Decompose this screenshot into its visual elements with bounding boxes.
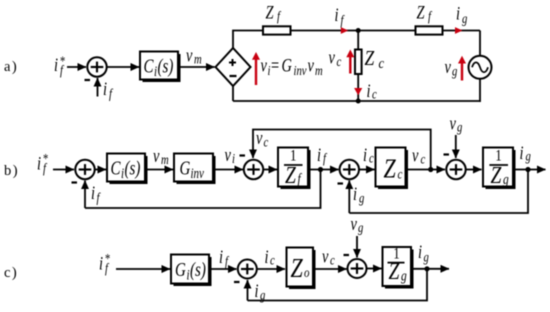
svg-text:i: i bbox=[363, 144, 367, 165]
node junction dot i_f takeoff bbox=[318, 167, 323, 172]
svg-text:Z: Z bbox=[365, 48, 375, 71]
svg-text:g: g bbox=[452, 63, 457, 79]
svg-text:i: i bbox=[353, 183, 357, 204]
label Z_f bbox=[266, 2, 282, 24]
wire capacitor branch bottom bbox=[357, 75, 359, 101]
svg-text:v: v bbox=[351, 213, 358, 234]
svg-text:g: g bbox=[359, 190, 364, 206]
node i_f label bbox=[317, 144, 327, 166]
svg-text:Z: Z bbox=[384, 154, 397, 184]
svg-text:c: c bbox=[330, 252, 335, 268]
svg-text:C: C bbox=[144, 56, 154, 77]
svg-text:Z: Z bbox=[417, 2, 426, 23]
svg-text:a): a) bbox=[4, 59, 18, 75]
wire i_f feedback vertical arrow into S1b bbox=[84, 181, 86, 209]
node v_g input label bbox=[351, 213, 364, 235]
svg-text:f: f bbox=[225, 253, 229, 269]
svg-text:v: v bbox=[153, 145, 160, 166]
summing junction S1b bbox=[72, 160, 95, 183]
resistor Z_f (inverter side) bbox=[263, 26, 291, 34]
summing junction S2b bbox=[240, 156, 264, 180]
svg-text:Z: Z bbox=[491, 161, 502, 189]
node junction dot (bottom) bbox=[356, 99, 361, 104]
node junction dot (top) bbox=[356, 28, 361, 33]
resistor Z_f (grid side) bbox=[416, 26, 443, 34]
svg-text:G: G bbox=[175, 259, 186, 280]
wire v_c feedback into S2b bbox=[253, 130, 431, 170]
wire controller to dependent source bbox=[181, 66, 215, 68]
svg-text:f: f bbox=[428, 8, 432, 24]
wire capacitor branch top bbox=[357, 31, 359, 49]
svg-text:G: G bbox=[180, 158, 191, 179]
node i_f* reference input label bbox=[54, 53, 65, 78]
node i_g output label bbox=[520, 142, 531, 164]
svg-text:m: m bbox=[194, 51, 202, 67]
svg-text:i: i bbox=[54, 54, 58, 75]
svg-text:g: g bbox=[503, 171, 509, 188]
svg-text:v: v bbox=[329, 47, 336, 68]
svg-text:f: f bbox=[277, 8, 281, 24]
svg-text:g: g bbox=[358, 220, 363, 236]
svg-text:(s): (s) bbox=[125, 158, 141, 179]
svg-text:c: c bbox=[421, 151, 426, 167]
wire S2b to 1/Zf block bbox=[264, 169, 278, 171]
svg-text:c: c bbox=[398, 166, 403, 181]
svg-text:c: c bbox=[264, 134, 269, 150]
wire output bbox=[411, 268, 449, 270]
svg-text:v: v bbox=[256, 127, 263, 148]
wire bottom rail bbox=[233, 100, 480, 102]
node i_c label bbox=[363, 144, 374, 166]
svg-text:i: i bbox=[456, 3, 460, 24]
wire i_f feedback arrow into S1a bbox=[97, 78, 99, 97]
wire i_f feedback horizontal bbox=[85, 170, 321, 209]
voltage arrow v_i (red) bbox=[252, 52, 260, 85]
node junction dot v_c takeoff bbox=[428, 167, 433, 172]
wire v_g arrow into S4b bbox=[455, 135, 457, 158]
wire top rail right bbox=[443, 30, 481, 32]
svg-text:v: v bbox=[308, 55, 315, 76]
svg-text:inv: inv bbox=[294, 63, 308, 79]
svg-text:f: f bbox=[341, 12, 345, 28]
block 1/Z_g bbox=[483, 147, 516, 189]
node i_g feedback label bbox=[255, 280, 266, 303]
svg-text:i: i bbox=[219, 246, 223, 267]
wire G_i(s) to summing junction S1c bbox=[212, 268, 237, 270]
node v_c label bbox=[329, 47, 342, 70]
node i_f feedback label bbox=[103, 78, 113, 101]
node i_f feedback label bbox=[91, 182, 101, 205]
svg-text:Z: Z bbox=[266, 2, 275, 23]
svg-text:i: i bbox=[37, 153, 41, 174]
svg-text:i: i bbox=[99, 253, 103, 274]
block 1/Z_f bbox=[278, 147, 311, 189]
wire Z_o to summing junction S2c bbox=[313, 268, 347, 270]
svg-text:Z: Z bbox=[285, 161, 296, 189]
node v_m label bbox=[153, 145, 169, 167]
svg-text:i: i bbox=[103, 78, 107, 99]
ac source v_g bbox=[469, 56, 492, 79]
svg-text:=: = bbox=[271, 55, 279, 76]
node label v_i = G_inv v_m bbox=[261, 55, 323, 79]
node i_c label bbox=[265, 246, 276, 268]
wire i_g feedback horizontal bbox=[349, 170, 528, 214]
wire v_g arrow into S2c bbox=[356, 236, 358, 258]
summing junction S4b bbox=[444, 155, 466, 180]
svg-text:v: v bbox=[186, 45, 193, 66]
svg-text:inv: inv bbox=[191, 166, 205, 182]
node i_f* reference input label bbox=[37, 151, 48, 176]
svg-text:v: v bbox=[225, 144, 232, 165]
controller C_i(s) bbox=[140, 52, 181, 83]
svg-text:f: f bbox=[323, 150, 327, 166]
current arrow i_f (red) bbox=[341, 27, 349, 34]
wire right rail top bbox=[479, 31, 481, 57]
block 1/Z_g bbox=[383, 245, 414, 288]
controller C_i(s) bbox=[107, 154, 148, 185]
node v_i label bbox=[225, 144, 236, 166]
svg-text:c: c bbox=[337, 54, 342, 70]
svg-text:i: i bbox=[265, 246, 269, 267]
svg-text:g: g bbox=[401, 267, 407, 284]
wire S1a to controller bbox=[107, 66, 139, 68]
node i_c label bbox=[367, 80, 378, 102]
current arrow i_g (red) bbox=[455, 27, 463, 34]
svg-text:i: i bbox=[418, 241, 422, 262]
svg-text:i: i bbox=[367, 80, 371, 101]
svg-text:i: i bbox=[232, 151, 235, 167]
voltage arrow v_c (red, up) bbox=[346, 50, 354, 74]
svg-text:v: v bbox=[445, 56, 452, 77]
node junction dot i_g takeoff bbox=[424, 266, 429, 271]
svg-text:c: c bbox=[369, 150, 374, 166]
wire controller to inverter block bbox=[148, 169, 174, 171]
wire S3b to Z_c block bbox=[359, 169, 374, 171]
svg-text:g: g bbox=[462, 11, 467, 27]
wire S1b to controller bbox=[95, 169, 106, 171]
wire output bbox=[513, 169, 546, 171]
wire S4b to 1/Zg block bbox=[466, 169, 482, 171]
controller G_i(s) bbox=[171, 255, 212, 287]
summing junction S1c bbox=[234, 260, 257, 283]
svg-text:G: G bbox=[282, 55, 292, 76]
svg-text:v: v bbox=[261, 55, 268, 76]
svg-text:m: m bbox=[315, 63, 323, 79]
summing junction S2c bbox=[344, 255, 367, 278]
svg-text:v: v bbox=[412, 145, 419, 166]
wire diamond bottom to bottom rail bbox=[232, 86, 234, 101]
node junction dot i_g takeoff bbox=[525, 167, 530, 172]
node v_g label bbox=[445, 56, 458, 79]
svg-text:(s): (s) bbox=[190, 259, 206, 280]
wire input to summing junction bbox=[67, 66, 86, 68]
svg-text:c): c) bbox=[4, 265, 18, 281]
dependent source diamond v_i bbox=[216, 48, 251, 86]
svg-text:v: v bbox=[450, 113, 457, 134]
wire i_g feedback horizontal bbox=[248, 269, 428, 301]
svg-text:b): b) bbox=[4, 163, 19, 179]
wire top rail middle bbox=[291, 30, 416, 32]
svg-text:i: i bbox=[335, 4, 339, 25]
wire 1/Zf to summing junction S3b bbox=[308, 169, 339, 171]
svg-text:i: i bbox=[520, 142, 524, 163]
svg-text:v: v bbox=[322, 246, 329, 267]
summing junction S1a bbox=[85, 57, 107, 80]
svg-text:c: c bbox=[270, 252, 275, 268]
wire right rail bottom bbox=[479, 79, 481, 102]
wire G_inv to summing junction S2b bbox=[213, 169, 243, 171]
wire S2c to 1/Zg bbox=[367, 268, 382, 270]
node i_g feedback label bbox=[353, 183, 364, 206]
node i_g label bbox=[456, 3, 467, 27]
node v_c feedback label bbox=[256, 127, 269, 150]
node v_m label bbox=[186, 45, 202, 67]
svg-text:f: f bbox=[109, 86, 113, 102]
node v_c label bbox=[322, 246, 335, 268]
node i_f label (top rail) bbox=[335, 4, 345, 28]
wire input to G_i(s) bbox=[116, 268, 170, 270]
current arrow i_c (red, down) bbox=[354, 88, 362, 95]
svg-text:i: i bbox=[255, 280, 259, 301]
svg-text:g: g bbox=[457, 119, 462, 135]
svg-text:Z: Z bbox=[291, 254, 304, 284]
node v_c label bbox=[412, 145, 426, 167]
svg-text:o: o bbox=[304, 265, 309, 280]
label Z_f bbox=[417, 2, 433, 24]
svg-text:i: i bbox=[91, 182, 95, 203]
svg-text:Z: Z bbox=[389, 257, 400, 285]
wire S1c to Z_o bbox=[257, 268, 285, 270]
svg-text:g: g bbox=[526, 148, 531, 164]
label Z_c bbox=[365, 48, 385, 72]
wire Z_c to summing junction S4b bbox=[406, 169, 446, 171]
svg-text:m: m bbox=[161, 152, 169, 168]
node v_g input label bbox=[450, 113, 463, 135]
summing junction S3b bbox=[338, 160, 359, 184]
svg-text:C: C bbox=[111, 158, 121, 179]
svg-text:c: c bbox=[372, 86, 377, 102]
svg-text:i: i bbox=[317, 144, 321, 165]
node i_f* reference input label bbox=[99, 251, 110, 276]
wire i_g feedback vertical arrow into S3b bbox=[348, 181, 350, 214]
block Z_o bbox=[287, 248, 316, 290]
svg-text:g: g bbox=[424, 249, 429, 265]
wire diamond top to top rail bbox=[233, 31, 263, 49]
impedance Z_c (vertical) bbox=[355, 50, 362, 75]
svg-text:(s): (s) bbox=[158, 56, 174, 77]
svg-text:c: c bbox=[379, 55, 385, 71]
wire i_g feedback arrow into S1c bbox=[247, 280, 249, 301]
voltage arrow v_g (red) bbox=[458, 56, 466, 81]
node i_g output label bbox=[418, 241, 429, 265]
block Z_c bbox=[376, 148, 409, 190]
svg-text:f: f bbox=[97, 190, 101, 206]
inverter gain block G_inv bbox=[174, 154, 216, 185]
wire input to summing junction S1b bbox=[53, 169, 74, 171]
node i_f label bbox=[219, 246, 229, 269]
